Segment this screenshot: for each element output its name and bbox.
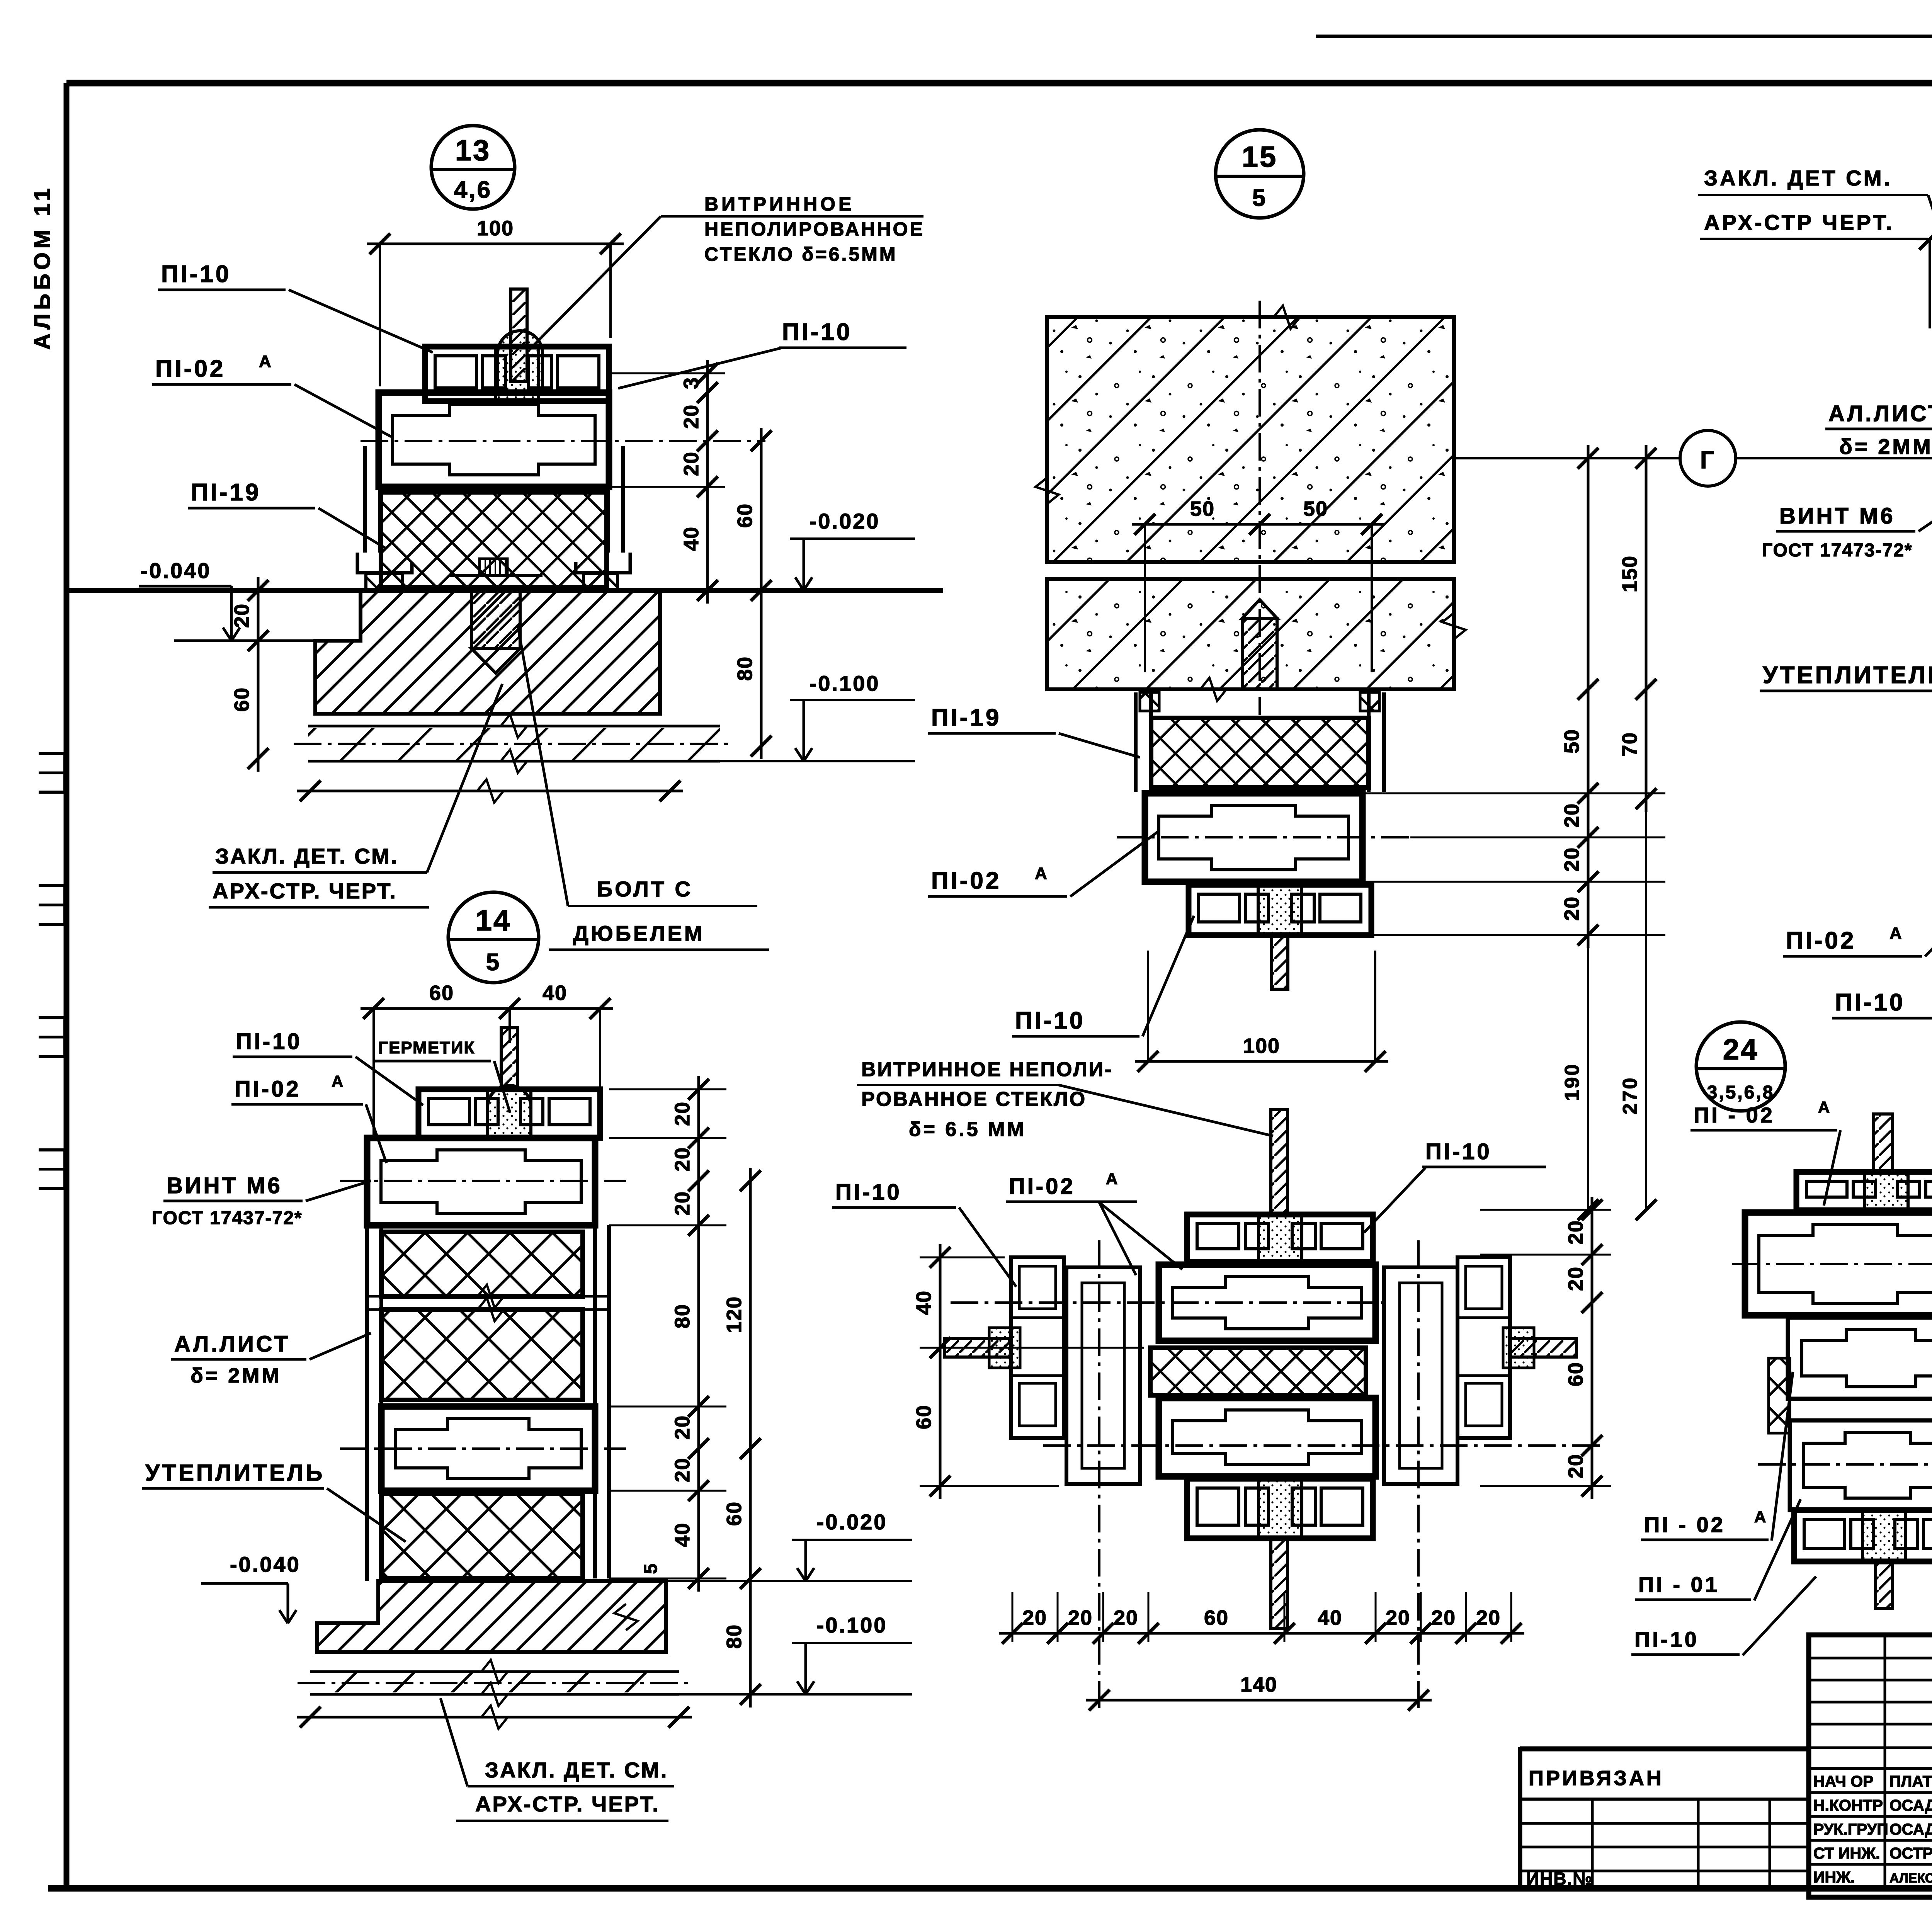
svg-text:РОВАННОЕ СТЕКЛО: РОВАННОЕ СТЕКЛО [861, 1088, 1087, 1111]
svg-text:ПI-10: ПI-10 [1425, 1139, 1492, 1164]
svg-text:20: 20 [1564, 1220, 1587, 1245]
svg-text:А: А [1035, 864, 1049, 883]
svg-text:ДЮБЕЛЕМ: ДЮБЕЛЕМ [573, 921, 705, 946]
svg-text:20: 20 [671, 1147, 694, 1172]
svg-text:80: 80 [723, 1624, 746, 1649]
svg-text:13: 13 [455, 134, 491, 167]
svg-text:3,5,6,8: 3,5,6,8 [1707, 1082, 1775, 1103]
svg-text:А: А [332, 1072, 345, 1090]
svg-text:-0.100: -0.100 [810, 671, 880, 696]
svg-text:А: А [1754, 1508, 1767, 1526]
svg-text:20: 20 [1068, 1606, 1093, 1629]
svg-text:20: 20 [680, 404, 703, 429]
svg-text:60: 60 [723, 1501, 746, 1526]
svg-text:БОЛТ С: БОЛТ С [597, 877, 693, 901]
svg-text:60: 60 [733, 503, 757, 528]
svg-text:140: 140 [1240, 1673, 1277, 1696]
svg-text:60: 60 [429, 981, 454, 1005]
svg-text:20: 20 [671, 1191, 694, 1216]
svg-text:20: 20 [1564, 1454, 1587, 1478]
svg-text:-0.040: -0.040 [141, 558, 211, 583]
svg-text:ПI-10: ПI-10 [1015, 1007, 1085, 1034]
svg-text:ПI-02: ПI-02 [155, 355, 225, 382]
svg-text:60: 60 [1204, 1606, 1229, 1629]
svg-text:-0.020: -0.020 [810, 509, 880, 533]
svg-text:50: 50 [1560, 729, 1583, 753]
svg-text:3: 3 [680, 377, 703, 389]
svg-text:Г: Г [1700, 446, 1716, 474]
svg-text:РУК.ГРУП: РУК.ГРУП [1813, 1820, 1888, 1838]
svg-text:80: 80 [671, 1304, 694, 1328]
svg-text:ЗАКЛ. ДЕТ СМ.: ЗАКЛ. ДЕТ СМ. [1704, 166, 1892, 190]
svg-text:ВИНТ М6: ВИНТ М6 [167, 1173, 282, 1198]
svg-text:4,6: 4,6 [454, 177, 492, 203]
svg-text:190: 190 [1561, 1063, 1583, 1101]
svg-text:20: 20 [1560, 896, 1583, 921]
svg-text:5: 5 [486, 949, 501, 976]
svg-text:100: 100 [1243, 1034, 1280, 1058]
svg-text:ГОСТ 17473-72*: ГОСТ 17473-72* [1762, 540, 1913, 561]
svg-text:ПI-10: ПI-10 [782, 319, 852, 345]
svg-text:АРХ-СТР. ЧЕРТ.: АРХ-СТР. ЧЕРТ. [213, 879, 397, 903]
svg-text:20: 20 [671, 1101, 694, 1126]
svg-text:20: 20 [1560, 803, 1583, 828]
svg-text:АРХ-СТР. ЧЕРТ.: АРХ-СТР. ЧЕРТ. [475, 1792, 660, 1816]
svg-text:δ= 2ММ: δ= 2ММ [1839, 434, 1932, 459]
svg-text:ВИТРИННОЕ: ВИТРИННОЕ [704, 193, 854, 215]
svg-text:20: 20 [1431, 1606, 1456, 1629]
svg-text:ГОСТ 17437-72*: ГОСТ 17437-72* [152, 1208, 303, 1228]
svg-text:40: 40 [543, 981, 567, 1005]
svg-text:УТЕПЛИТЕЛЬ: УТЕПЛИТЕЛЬ [145, 1460, 325, 1486]
svg-text:АЛ.ЛИСТ: АЛ.ЛИСТ [1828, 401, 1932, 426]
svg-text:-0.100: -0.100 [817, 1613, 888, 1637]
svg-text:АЛЬБОМ 11: АЛЬБОМ 11 [30, 184, 55, 350]
svg-text:ПI-19: ПI-19 [191, 479, 261, 506]
svg-text:АЛЕКСАНДРОВА: АЛЕКСАНДРОВА [1889, 1871, 1932, 1886]
svg-text:100: 100 [477, 217, 514, 240]
svg-text:НАЧ ОР: НАЧ ОР [1813, 1772, 1874, 1790]
svg-text:20: 20 [1386, 1606, 1410, 1629]
svg-text:5: 5 [1252, 185, 1267, 211]
svg-text:А: А [1818, 1098, 1831, 1116]
svg-text:ИНЖ.: ИНЖ. [1813, 1868, 1855, 1886]
svg-text:А: А [259, 352, 273, 371]
svg-text:Н.КОНТР: Н.КОНТР [1813, 1796, 1883, 1814]
svg-text:24: 24 [1723, 1033, 1759, 1066]
svg-text:А: А [1889, 924, 1903, 943]
svg-text:ПI-10: ПI-10 [1634, 1627, 1699, 1651]
svg-text:14: 14 [476, 904, 512, 937]
svg-text:ГЕРМЕТИК: ГЕРМЕТИК [378, 1038, 475, 1057]
svg-text:НЕПОЛИРОВАННОЕ: НЕПОЛИРОВАННОЕ [704, 218, 925, 240]
svg-text:ОСАДЬКО: ОСАДЬКО [1889, 1820, 1932, 1838]
svg-text:ПI-10: ПI-10 [236, 1029, 302, 1054]
svg-text:60: 60 [1564, 1362, 1587, 1386]
svg-text:80: 80 [733, 656, 757, 681]
svg-text:ПI - 02: ПI - 02 [1694, 1103, 1775, 1127]
svg-text:ПI-19: ПI-19 [931, 704, 1001, 731]
svg-text:40: 40 [1318, 1606, 1342, 1629]
svg-text:δ= 6.5 ММ: δ= 6.5 ММ [909, 1118, 1026, 1141]
svg-text:АЛ.ЛИСТ: АЛ.ЛИСТ [174, 1332, 290, 1357]
svg-text:15: 15 [1242, 141, 1278, 173]
svg-text:ПI-02: ПI-02 [1009, 1174, 1075, 1199]
svg-text:ПI-02: ПI-02 [1786, 927, 1856, 954]
svg-text:ПI-10: ПI-10 [161, 261, 231, 287]
svg-text:СТ ИНЖ.: СТ ИНЖ. [1813, 1844, 1880, 1862]
svg-text:50: 50 [1303, 497, 1328, 520]
svg-text:ПРИВЯЗАН: ПРИВЯЗАН [1529, 1767, 1664, 1790]
svg-text:ПI-02: ПI-02 [235, 1077, 301, 1102]
svg-text:60: 60 [912, 1405, 935, 1429]
svg-text:5: 5 [641, 1562, 661, 1574]
svg-text:ЗАКЛ. ДЕТ. СМ.: ЗАКЛ. ДЕТ. СМ. [215, 844, 398, 868]
svg-text:ВИТРИННОЕ НЕПОЛИ-: ВИТРИННОЕ НЕПОЛИ- [861, 1058, 1113, 1081]
svg-text:20: 20 [671, 1458, 694, 1482]
svg-text:ПЛАТОНОВ: ПЛАТОНОВ [1889, 1772, 1932, 1790]
svg-text:ОСТРЕЙКО: ОСТРЕЙКО [1889, 1844, 1932, 1862]
svg-text:40: 40 [912, 1290, 935, 1315]
svg-text:120: 120 [723, 1296, 746, 1333]
svg-text:-0.020: -0.020 [817, 1510, 888, 1534]
svg-text:70: 70 [1618, 732, 1641, 757]
svg-text:ПI - 01: ПI - 01 [1638, 1572, 1719, 1597]
svg-text:20: 20 [680, 451, 703, 476]
svg-text:20: 20 [1564, 1266, 1587, 1291]
svg-text:60: 60 [230, 687, 253, 712]
svg-text:ЗАКЛ. ДЕТ. СМ.: ЗАКЛ. ДЕТ. СМ. [485, 1758, 668, 1782]
svg-text:270: 270 [1619, 1077, 1641, 1115]
svg-text:УТЕПЛИТЕЛЬ: УТЕПЛИТЕЛЬ [1763, 662, 1932, 689]
svg-text:40: 40 [680, 526, 703, 551]
svg-text:АРХ-СТР ЧЕРТ.: АРХ-СТР ЧЕРТ. [1704, 210, 1895, 235]
svg-text:150: 150 [1618, 555, 1641, 592]
svg-text:20: 20 [1114, 1606, 1138, 1629]
svg-text:50: 50 [1190, 497, 1215, 520]
svg-text:А: А [1106, 1170, 1119, 1188]
svg-text:20: 20 [1560, 847, 1583, 872]
svg-text:δ= 2ММ: δ= 2ММ [190, 1364, 281, 1387]
svg-text:ПI-02: ПI-02 [931, 867, 1001, 894]
svg-text:СТЕКЛО δ=6.5ММ: СТЕКЛО δ=6.5ММ [704, 243, 897, 265]
svg-text:40: 40 [671, 1522, 694, 1547]
svg-text:ПI-10: ПI-10 [835, 1180, 902, 1205]
svg-text:20: 20 [1022, 1606, 1047, 1629]
svg-text:ОСАДЬКО: ОСАДЬКО [1889, 1796, 1932, 1814]
svg-text:ПI - 02: ПI - 02 [1644, 1512, 1725, 1537]
svg-text:20: 20 [671, 1415, 694, 1440]
svg-text:ПI-10: ПI-10 [1835, 989, 1905, 1016]
svg-text:20: 20 [1476, 1606, 1501, 1629]
svg-text:ВИНТ М6: ВИНТ М6 [1779, 503, 1895, 529]
svg-text:-0.040: -0.040 [230, 1552, 301, 1577]
svg-text:20: 20 [230, 603, 253, 628]
